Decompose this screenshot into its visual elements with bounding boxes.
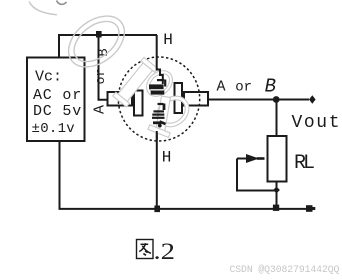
wire stub right of top lead <box>157 79 164 81</box>
wire potentiometer wiper loop <box>237 159 275 192</box>
watermark serif bar 1 <box>113 57 158 107</box>
right lead-out box <box>184 92 208 106</box>
svg-text:A: A <box>216 78 225 95</box>
left lead-out box <box>108 92 133 106</box>
wire top lead into circle <box>156 35 166 87</box>
output terminal diamond <box>309 95 316 104</box>
wire Vc box bottom lead <box>59 142 61 209</box>
watermark bowl glyph <box>151 90 195 133</box>
caption glyph 图 <box>137 240 154 259</box>
wire output A/B <box>209 99 309 101</box>
junction dot at output node <box>273 96 280 103</box>
svg-text:H: H <box>163 31 173 49</box>
stub vertical tick <box>164 80 166 87</box>
wire bottom lead from circle <box>156 128 158 140</box>
bottom rail end terminal square <box>306 205 313 212</box>
watermark loop glyph <box>141 66 177 102</box>
watermark stem bar 2 <box>147 95 176 138</box>
wire bottom lead visible part <box>156 131 158 208</box>
wire from junction down to RL <box>276 100 278 137</box>
top electrode bar lower <box>151 91 165 95</box>
svg-text:DC 5v: DC 5v <box>33 103 82 120</box>
svg-text:CSDN @Q3082791442QQ: CSDN @Q3082791442QQ <box>230 264 340 275</box>
watermark arc top-left corner <box>29 2 57 15</box>
Hall element circle body U1 <box>118 57 199 141</box>
supply source box Vc <box>27 58 85 142</box>
junction square at bottom of circle lead <box>154 206 160 213</box>
watermark small dark arc <box>57 1 67 5</box>
top electrode bar upper <box>149 84 164 89</box>
svg-text:±0.1v: ±0.1v <box>32 121 76 137</box>
junction square at top rail <box>96 31 102 38</box>
left inner electrode <box>134 91 143 116</box>
svg-text:.2: .2 <box>154 238 175 264</box>
wire drop to left terminal <box>98 34 108 100</box>
watermark ellipse ring <box>59 6 134 78</box>
wire RL bottom lead <box>276 182 278 206</box>
right inner electrode <box>175 83 183 113</box>
wire bottom rail <box>59 208 307 210</box>
wire top rail <box>58 34 157 36</box>
svg-text:Vout: Vout <box>292 113 342 133</box>
junction diamond below RL <box>273 187 280 194</box>
svg-text:B: B <box>265 75 276 97</box>
svg-text:Vc:: Vc: <box>35 69 62 86</box>
junction square bottom rail under RL <box>273 205 279 211</box>
Hall plate hatch symbol <box>152 104 166 128</box>
svg-text:A: A <box>91 105 108 114</box>
wire riser from Vc box top <box>58 35 60 57</box>
svg-text:AC or: AC or <box>33 87 82 104</box>
resistor RL <box>268 136 287 182</box>
wiper arrowhead <box>246 154 259 163</box>
svg-text:H: H <box>162 149 172 167</box>
svg-text:or: or <box>235 80 252 96</box>
svg-text:or: or <box>93 69 108 85</box>
svg-text:RL: RL <box>294 152 314 175</box>
